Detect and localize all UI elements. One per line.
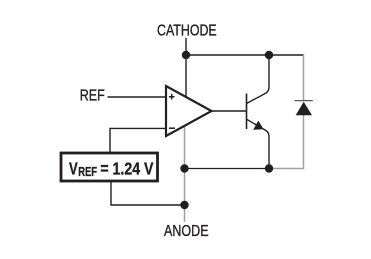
voltage source box VREF: [61, 153, 158, 181]
wire bottom rail to diode branch: [269, 115, 304, 169]
op-amp U1: [166, 86, 212, 136]
op-amp minus input symbol: [169, 127, 175, 129]
wire top rail: [186, 54, 304, 56]
wire anode net vertical (op-amp ground to anode): [184, 126, 186, 222]
transistor Q1 collector: [247, 55, 270, 104]
wire op-amp output to transistor base: [212, 110, 247, 112]
wire diode branch upper: [303, 55, 305, 101]
svg-text:V: V: [69, 158, 78, 178]
op-amp plus input symbol: [169, 94, 175, 100]
svg-text:REF: REF: [78, 164, 97, 179]
wire op-amp inverting input: [110, 128, 166, 153]
transistor Q1 emitter: [247, 119, 270, 168]
junction dot D (anode / bottom rail): [180, 164, 188, 172]
diode D1 cathode bar: [295, 100, 313, 102]
junction dot E (vref return / anode): [180, 201, 188, 209]
svg-text:CATHODE: CATHODE: [157, 22, 217, 39]
svg-text:= 1.24 V: = 1.24 V: [100, 158, 153, 178]
wire op-amp supply: [185, 55, 187, 98]
wire bottom rail (anode to emitter): [185, 168, 269, 170]
wire REF to op-amp noninverting input: [108, 96, 167, 98]
wire vref box return (bottom to anode): [111, 182, 185, 206]
transistor Q1 emitter arrowhead: [253, 121, 263, 130]
wire cathode stub: [185, 38, 187, 55]
junction dot A (cathode / top rail): [182, 51, 190, 59]
diode D1 body: [296, 102, 312, 115]
transistor Q1 base bar: [246, 94, 248, 130]
svg-text:REF: REF: [80, 87, 105, 104]
junction dot B (collector / top rail): [265, 51, 273, 59]
junction dot C (emitter / bottom rail): [265, 164, 273, 172]
svg-text:ANODE: ANODE: [164, 223, 209, 240]
